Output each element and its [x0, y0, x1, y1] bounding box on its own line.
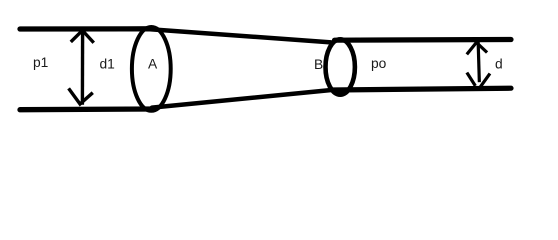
node A cross-section ellipse [132, 27, 171, 111]
svg-text:d1: d1 [100, 56, 115, 71]
wire bottom wall of wide pipe (left horizontal) [20, 106, 154, 112]
wire top wall of wide pipe (left horizontal) [20, 26, 153, 32]
dimension arrow d (double-headed vertical, right pipe) [468, 43, 489, 86]
wire top wall of narrow pipe (right horizontal) [335, 37, 512, 43]
svg-text:A: A [148, 57, 158, 72]
svg-text:d: d [495, 57, 503, 72]
wire converging bottom wall [152, 90, 334, 108]
svg-text:p1: p1 [33, 55, 48, 70]
svg-text:B: B [314, 57, 323, 72]
wire bottom wall of narrow pipe (right horizontal) [333, 88, 511, 90]
node B cross-section ellipse [326, 39, 355, 94]
svg-text:po: po [371, 56, 387, 71]
wire converging top wall [150, 29, 331, 42]
dimension arrow d1 (double-headed vertical, left pipe) [70, 30, 93, 104]
